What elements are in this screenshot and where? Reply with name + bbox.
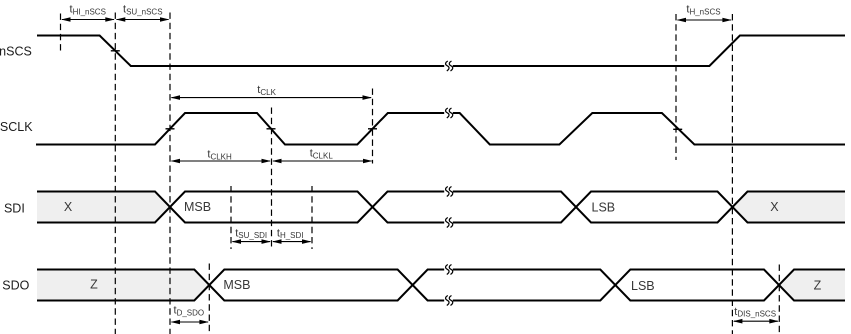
svg-text:X: X (64, 200, 73, 214)
SDI waveform bottom-start line (37, 192, 845, 223)
break SDO bottom (446, 296, 453, 306)
gray fill SDO right Z region (779, 270, 845, 301)
dashed line SCLK fall1 at x=271.5 (271, 108, 273, 250)
break SDI top (446, 187, 453, 197)
dashed line tSU_SDI left at x=231 (230, 186, 232, 249)
arrow tH_nSCS (677, 18, 732, 23)
dashed line SCLK fall2 at x=676 (675, 14, 677, 160)
svg-text:LSB: LSB (631, 279, 655, 293)
svg-text:MSB: MSB (223, 278, 250, 292)
arrow tHI_nSCS (61, 17, 115, 22)
tick SCLK fall2 (673, 128, 682, 130)
nSCS waveform (37, 36, 845, 67)
gray fill SDI left X region (37, 192, 170, 223)
arrow tDIS_nSCS (733, 319, 779, 324)
dashed line SCLK rise2 at x=372.5 (372, 89, 374, 164)
dashed line tH_SDI right at x=312 (311, 186, 313, 249)
tick SCLK fall1 (267, 128, 276, 130)
gray fill SDO left Z region (37, 270, 209, 301)
arrow tSU_nSCS (116, 17, 170, 22)
svg-text:SCLK: SCLK (0, 120, 33, 134)
gray fill SDI right X region (733, 192, 846, 223)
dashed line nSCS fall at x=115.3 (114, 13, 116, 334)
dashed line SDO MSB at x=209.3 (208, 264, 210, 334)
SCLK waveform (36, 113, 845, 145)
break SDI bottom (446, 218, 453, 228)
svg-text:SDI: SDI (4, 202, 25, 216)
SDI waveform top-start line (37, 192, 845, 223)
arrow tCLK (171, 95, 373, 100)
SDO waveform bottom-start line (37, 270, 845, 301)
tick SCLK rise2 (368, 128, 377, 130)
arrow tD_SDO (171, 320, 209, 325)
arrow tSU_SDI (232, 239, 272, 244)
dashed line SCLK rise1 at x=170 (169, 13, 171, 334)
break SDO top (446, 265, 453, 275)
tick SCLK rise1 (166, 128, 175, 130)
arrow tH_SDI (272, 239, 312, 244)
arrow tCLKL (272, 159, 373, 164)
dashed line tHI left at x=60.5 (60, 14, 62, 55)
svg-text:nSCS: nSCS (0, 45, 32, 59)
svg-text:SDO: SDO (2, 279, 29, 293)
SDO waveform top-start line (37, 270, 845, 301)
dashed line nSCS rise at x=732.4 (731, 14, 733, 334)
svg-text:X: X (770, 200, 779, 214)
break nSCS (446, 61, 453, 71)
svg-text:LSB: LSB (592, 201, 616, 215)
dashed line SDO disable at x=779.3 (778, 265, 780, 334)
svg-text:MSB: MSB (184, 200, 211, 214)
arrow tCLKH (171, 159, 272, 164)
svg-text:Z: Z (814, 279, 822, 293)
svg-text:Z: Z (90, 278, 98, 292)
tick nSCS fall (111, 50, 120, 52)
break SCLK (446, 108, 453, 118)
